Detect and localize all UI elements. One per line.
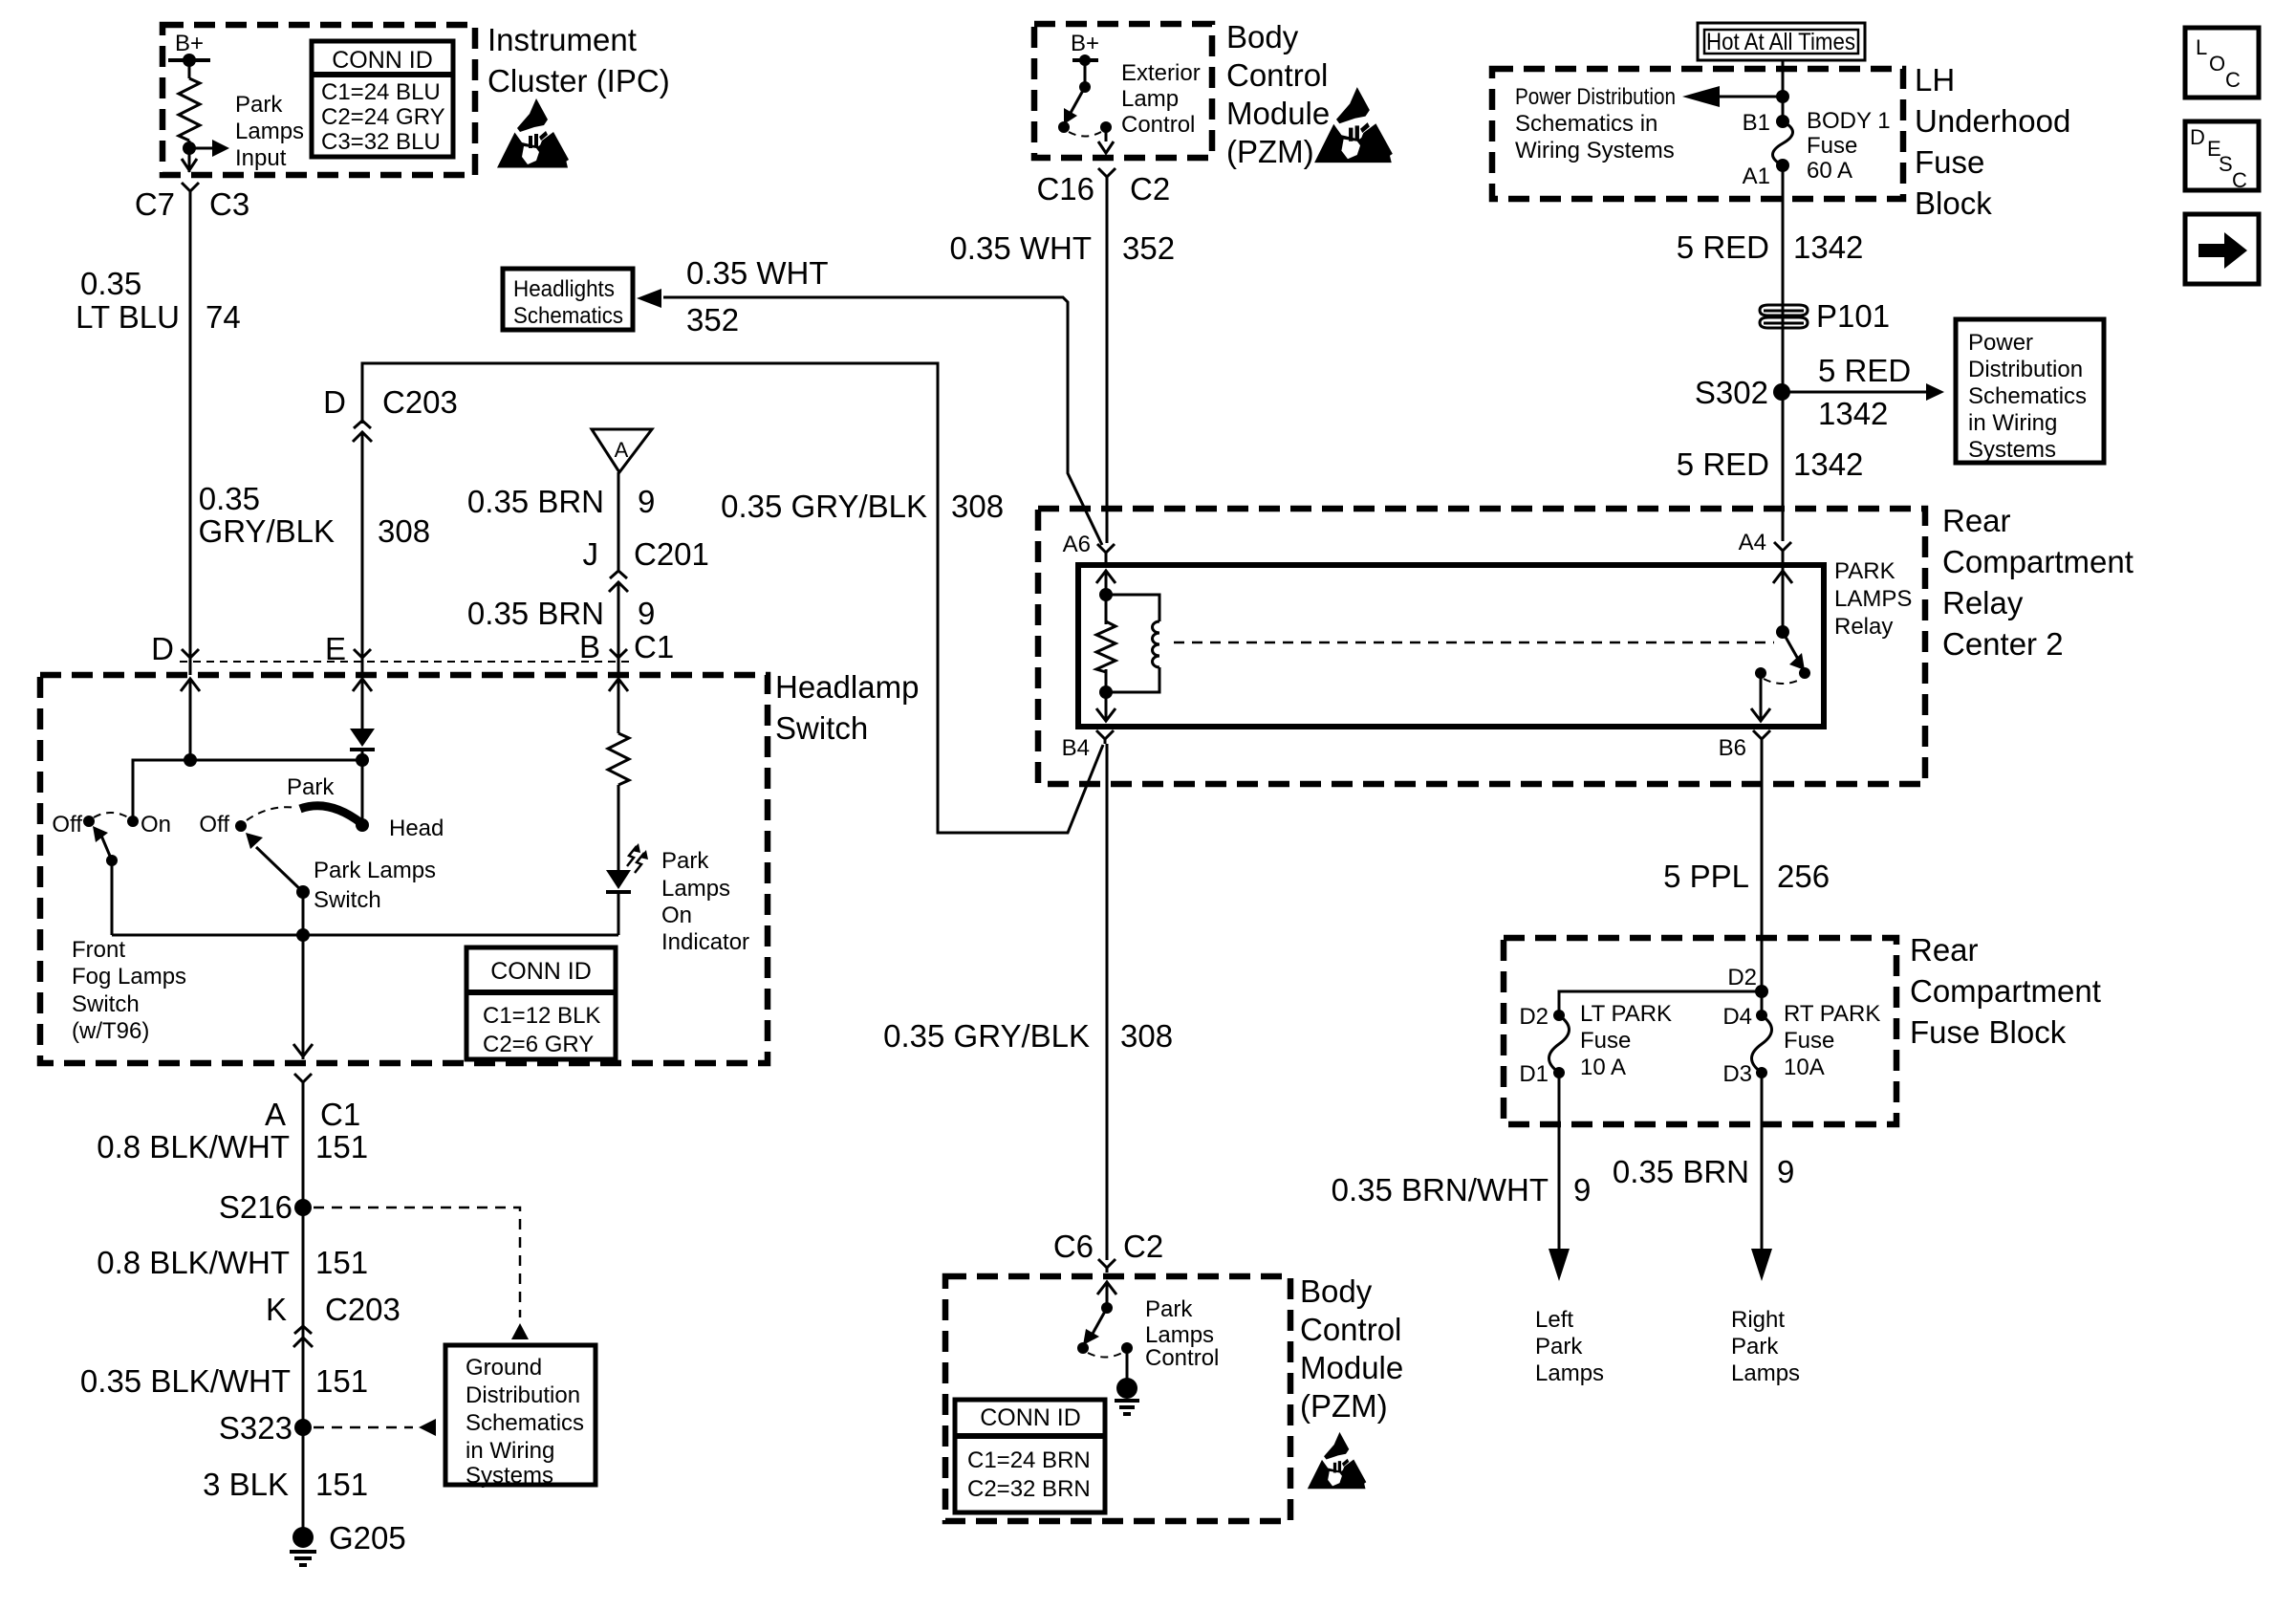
svg-text:Module: Module [1226, 96, 1330, 131]
svg-text:Fuse: Fuse [1807, 133, 1857, 159]
esd symbol (BCM top) [1314, 87, 1393, 163]
svg-text:L: L [2196, 35, 2207, 59]
svg-text:Head: Head [389, 816, 444, 841]
svg-text:Control: Control [1300, 1312, 1401, 1347]
svg-text:C1: C1 [320, 1097, 360, 1132]
relay switch feed wire [1782, 555, 1785, 632]
relay control dashed line [1174, 642, 1774, 644]
wire B pin to resistor [617, 679, 620, 733]
led park lamps on indicator [606, 870, 631, 889]
svg-text:5 RED: 5 RED [1677, 229, 1769, 265]
svg-text:D1: D1 [1519, 1061, 1549, 1087]
wire B6 down to fuse block [1761, 744, 1764, 991]
connector C7/C3 below IPC [182, 183, 199, 196]
arrow to power distribution schematics [1718, 96, 1783, 98]
fuse BODY 1 pin B1 dot [1776, 115, 1789, 128]
switch lever exterior lamp control [1071, 87, 1085, 113]
wire pin C6 to switch dot [1106, 1282, 1109, 1308]
svg-text:B6: B6 [1719, 735, 1746, 761]
svg-text:9: 9 [638, 484, 655, 519]
svg-text:Fog Lamps: Fog Lamps [72, 964, 186, 990]
svg-text:0.35 BRN/WHT: 0.35 BRN/WHT [1332, 1172, 1549, 1207]
dashed reference S216 to ground distribution [314, 1207, 520, 1317]
power distribution schematics box [1956, 319, 2104, 463]
pivot dot park lamps control [1101, 1302, 1113, 1314]
pivot dot (park lamps switch) [296, 885, 310, 899]
connector C203 pin K symbol [293, 1326, 313, 1351]
svg-text:Schematics: Schematics [466, 1410, 584, 1436]
CONN ID table (IPC) [312, 41, 453, 157]
svg-text:C1=24 BLU: C1=24 BLU [321, 79, 441, 105]
svg-text:C201: C201 [634, 536, 709, 572]
svg-text:Indicator: Indicator [661, 929, 749, 955]
junction dot power distribution branch [1776, 90, 1789, 103]
svg-text:Block: Block [1915, 185, 1992, 221]
svg-text:C7: C7 [135, 186, 175, 222]
splice S216 [294, 1199, 312, 1216]
dashed throw arc (fog switch) [94, 813, 128, 817]
svg-text:B+: B+ [1071, 31, 1099, 56]
svg-text:10 A: 10 A [1580, 1055, 1626, 1080]
wire B4 down to BCM C6 [1106, 744, 1109, 1260]
svg-text:Compartment: Compartment [1910, 973, 2101, 1009]
svg-text:G205: G205 [329, 1520, 406, 1556]
svg-text:74: 74 [206, 299, 241, 335]
fuse RT PARK element [1752, 1015, 1772, 1073]
connector C201 pin J symbol [609, 571, 628, 596]
stem B+ to pivot [1084, 60, 1087, 87]
svg-text:352: 352 [686, 302, 739, 337]
svg-text:Lamps: Lamps [661, 876, 730, 902]
svg-text:Left: Left [1535, 1307, 1573, 1333]
arrow icon box [2185, 214, 2259, 284]
wire B+ to resistor [188, 60, 191, 78]
wire A1 down to relay A4 [1782, 165, 1785, 541]
svg-text:Input: Input [235, 145, 287, 171]
svg-text:S: S [2219, 152, 2233, 176]
relay center dashed box [1038, 509, 1925, 784]
fuse LT PARK element [1549, 1015, 1570, 1073]
switch lever (park lamps switch) [256, 847, 303, 892]
switch output bus [112, 934, 618, 937]
arrow into relay coil [1096, 571, 1116, 596]
svg-text:C: C [2232, 168, 2247, 192]
wire D1 to left park lamps [1558, 1073, 1561, 1252]
svg-text:LH: LH [1915, 62, 1955, 98]
rear compartment fuse block dashed box [1504, 938, 1896, 1124]
relay contact dot NO [1799, 667, 1810, 679]
branch to LT PARK fuse [1559, 991, 1762, 1015]
svg-text:352: 352 [1122, 230, 1175, 266]
svg-text:C16: C16 [1036, 171, 1094, 207]
connector pin E symbol [354, 649, 371, 663]
wire A to C201 [617, 472, 620, 570]
svg-text:D: D [151, 631, 174, 666]
wire coil bottom [1105, 669, 1108, 702]
hot at all times box [1698, 23, 1865, 60]
svg-text:A4: A4 [1739, 530, 1766, 555]
svg-text:Relay: Relay [1834, 614, 1893, 640]
arrow into switch pin E [353, 679, 372, 704]
svg-text:D2: D2 [1727, 965, 1757, 990]
arrow down to pin C3 [182, 159, 197, 170]
instrument cluster dashed box [162, 25, 475, 175]
svg-text:(w/T96): (w/T96) [72, 1018, 149, 1044]
junction dot below resistor [183, 141, 196, 155]
wire output down to pin A [302, 935, 305, 1059]
relay switch lever [1783, 632, 1799, 661]
svg-text:308: 308 [1120, 1018, 1173, 1054]
svg-text:LT BLU: LT BLU [76, 299, 180, 335]
svg-text:Park Lamps: Park Lamps [314, 858, 436, 883]
relay contact dot output [1755, 667, 1766, 679]
pivot dot (fog switch) [106, 855, 118, 866]
svg-text:Lamps: Lamps [1731, 1360, 1800, 1386]
svg-text:Distribution: Distribution [1968, 357, 2083, 382]
svg-text:Schematics: Schematics [1968, 383, 2087, 409]
wire fog pivot down [111, 860, 114, 935]
dashed throw arc (park lamps switch) [247, 807, 297, 820]
body control module dashed box (bottom) [945, 1276, 1290, 1521]
LT PARK fuse pin D2 dot [1553, 1010, 1565, 1021]
wire D3 to right park lamps [1761, 1073, 1764, 1252]
LT PARK fuse pin D1 dot [1553, 1067, 1565, 1078]
wire C203-D to relay B4 (308) [362, 363, 1103, 833]
svg-text:1342: 1342 [1793, 229, 1863, 265]
connector A6 [1097, 544, 1115, 557]
splice S302 [1773, 383, 1790, 401]
dashed throw arc (BCM2 switch) [1088, 1353, 1122, 1358]
arrow out of relay coil [1096, 696, 1116, 721]
svg-text:LAMPS: LAMPS [1834, 586, 1912, 612]
relay switch common dot [1776, 625, 1789, 639]
arrow right park lamps input [189, 147, 215, 150]
svg-text:CONN ID: CONN ID [490, 958, 592, 985]
svg-text:GRY/BLK: GRY/BLK [199, 513, 335, 549]
svg-text:Off: Off [52, 812, 82, 838]
svg-text:Off: Off [199, 812, 229, 838]
svg-text:151: 151 [315, 1467, 368, 1502]
connector B4 [1096, 730, 1114, 744]
svg-text:0.35: 0.35 [80, 266, 141, 301]
park lamps relay box [1078, 565, 1824, 727]
wire C203 to headlamp switch E [361, 446, 364, 675]
svg-text:On: On [661, 903, 692, 928]
svg-text:151: 151 [315, 1245, 368, 1280]
svg-text:5 RED: 5 RED [1677, 446, 1769, 482]
svg-text:in Wiring: in Wiring [1968, 410, 2057, 436]
svg-text:(PZM): (PZM) [1300, 1388, 1388, 1424]
svg-text:Hot At All Times: Hot At All Times [1706, 29, 1855, 55]
svg-text:Compartment: Compartment [1942, 544, 2134, 579]
svg-text:Underhood: Underhood [1915, 103, 2070, 139]
svg-text:PARK: PARK [1834, 558, 1895, 584]
headlights schematics box [503, 269, 633, 330]
arrow into BCM pin C6 [1097, 1282, 1116, 1307]
junction dot D2 [1755, 985, 1768, 998]
dashed reference S323 to ground distribution [314, 1426, 413, 1429]
svg-text:A: A [615, 438, 629, 462]
svg-text:C2: C2 [1123, 1229, 1163, 1264]
svg-text:Lamps: Lamps [1145, 1322, 1214, 1348]
arrow into switch pin B [609, 679, 628, 704]
resistor park lamps indicator [608, 733, 629, 785]
svg-text:S302: S302 [1695, 375, 1768, 410]
connector pin B symbol [610, 649, 627, 663]
svg-text:D: D [2190, 125, 2205, 149]
led light rays [627, 846, 637, 866]
svg-text:0.35 WHT: 0.35 WHT [686, 255, 829, 291]
relay coil resistor [1096, 621, 1116, 672]
contact dot off (fog switch) [83, 816, 95, 827]
connector plane dashed line [180, 661, 631, 663]
relay coil inductor branch [1106, 595, 1159, 621]
svg-text:0.35 WHT: 0.35 WHT [949, 230, 1092, 266]
svg-text:B1: B1 [1743, 110, 1770, 136]
svg-text:9: 9 [1777, 1154, 1794, 1189]
svg-text:Distribution: Distribution [466, 1382, 580, 1408]
triangle reference A [592, 429, 652, 472]
wire C16 down to relay A6 [1106, 182, 1109, 543]
contact dot on (fog switch) [127, 816, 139, 827]
wire A/C1 down to S216 [302, 1087, 305, 1528]
dashed contact arc [1764, 679, 1802, 684]
dashed throw arc (BCM switch) [1069, 132, 1101, 137]
svg-text:Schematics: Schematics [513, 303, 623, 329]
junction dot E branch [356, 753, 369, 767]
svg-text:Control: Control [1226, 57, 1328, 93]
svg-text:Headlights: Headlights [513, 276, 615, 302]
svg-text:B4: B4 [1062, 735, 1090, 761]
arrowhead into headlights box [637, 289, 661, 308]
wire resistor to box edge [188, 141, 191, 172]
junction dot coil bottom [1099, 685, 1113, 699]
diode (headlamp switch) [350, 729, 375, 747]
contact dot right (BCM switch) [1100, 121, 1112, 133]
svg-text:A6: A6 [1063, 532, 1091, 557]
pass-through grommet P101 [1760, 305, 1808, 328]
svg-text:J: J [583, 536, 599, 572]
wire relay output down [1760, 673, 1763, 702]
RT PARK fuse pin D4 dot [1756, 1010, 1767, 1021]
svg-text:C6: C6 [1053, 1229, 1094, 1264]
wire hot at all times into fuse block [1782, 60, 1785, 121]
svg-text:0.35 BRN: 0.35 BRN [467, 484, 604, 519]
svg-text:C203: C203 [325, 1292, 401, 1327]
branch bus to on contact [133, 760, 362, 821]
svg-text:D: D [323, 384, 346, 420]
svg-text:Fuse: Fuse [1580, 1028, 1631, 1054]
svg-text:Systems: Systems [466, 1463, 553, 1489]
svg-text:5 RED: 5 RED [1818, 353, 1911, 388]
arrow into relay switch [1773, 571, 1792, 596]
svg-text:P101: P101 [1816, 298, 1890, 334]
svg-text:Switch: Switch [72, 991, 140, 1017]
svg-text:Body: Body [1226, 19, 1299, 54]
svg-text:Rear: Rear [1910, 932, 1979, 968]
splice S323 [294, 1419, 312, 1436]
svg-text:Fuse: Fuse [1784, 1028, 1834, 1054]
svg-text:Right: Right [1731, 1307, 1785, 1333]
relay coil feed wire [1105, 557, 1108, 565]
resistor park lamps input (IPC) [179, 78, 200, 141]
svg-text:(PZM): (PZM) [1226, 134, 1314, 169]
svg-text:C2=32 BRN: C2=32 BRN [967, 1476, 1091, 1502]
contact dot right (BCM2 switch) [1121, 1342, 1133, 1354]
svg-text:Lamp: Lamp [1121, 86, 1179, 112]
svg-text:Cluster (IPC): Cluster (IPC) [487, 63, 670, 98]
svg-text:Power: Power [1968, 330, 2033, 356]
contact dot left (BCM2 switch) [1077, 1342, 1089, 1354]
B+ terminal bar (BCM) [1072, 58, 1098, 62]
connector C203 pin D symbol [353, 421, 372, 446]
svg-text:Switch: Switch [314, 887, 381, 913]
contact dot head [356, 818, 369, 832]
junction dot D branch [184, 753, 197, 767]
svg-text:D3: D3 [1722, 1061, 1752, 1087]
svg-text:Park: Park [235, 92, 283, 118]
svg-text:0.35: 0.35 [199, 481, 260, 516]
svg-text:C2=6 GRY: C2=6 GRY [483, 1032, 594, 1057]
wire led to bus [617, 894, 620, 935]
switch lever (fog switch) [101, 836, 112, 860]
thick park-head arc [300, 806, 361, 823]
body control module dashed box (top) [1034, 24, 1212, 158]
svg-text:Relay: Relay [1942, 585, 2024, 620]
connector pin D symbol [182, 649, 199, 663]
svg-text:C1=12 BLK: C1=12 BLK [483, 1003, 600, 1029]
svg-text:C3=32 BLU: C3=32 BLU [321, 129, 441, 155]
svg-text:0.8 BLK/WHT: 0.8 BLK/WHT [97, 1129, 290, 1164]
ground G205 [292, 1527, 314, 1548]
svg-text:S216: S216 [219, 1189, 292, 1225]
svg-text:C3: C3 [209, 186, 249, 222]
svg-text:O: O [2209, 52, 2225, 76]
svg-text:Lamps: Lamps [1535, 1360, 1604, 1386]
svg-text:Fuse Block: Fuse Block [1910, 1014, 2067, 1050]
ground distribution schematics box [445, 1345, 596, 1485]
arrow down to pin C16 [1098, 141, 1114, 153]
headlamp switch dashed box [40, 675, 768, 1063]
svg-text:A: A [265, 1097, 286, 1132]
svg-text:Control: Control [1121, 112, 1195, 138]
svg-text:CONN ID: CONN ID [332, 47, 433, 74]
svg-text:Switch: Switch [775, 710, 868, 746]
arrow out of switch pin A [293, 1044, 313, 1056]
arrow S302 to power distribution schematics [1782, 391, 1929, 394]
svg-text:Front: Front [72, 937, 125, 963]
svg-text:Ground: Ground [466, 1355, 542, 1381]
contact dot off (park lamps switch) [235, 820, 247, 832]
svg-text:Lamps: Lamps [235, 119, 304, 144]
svg-text:60 A: 60 A [1807, 158, 1852, 184]
loc icon box [2185, 28, 2259, 98]
svg-text:Park: Park [661, 848, 709, 874]
connector A/C1 below switch [294, 1074, 312, 1087]
junction dot B+ (IPC) [183, 54, 196, 67]
desc icon box [2185, 121, 2259, 190]
wire C201 to headlamp switch B [617, 596, 620, 675]
svg-text:Park: Park [1731, 1334, 1779, 1360]
svg-text:B: B [579, 629, 600, 664]
svg-text:Rear: Rear [1942, 503, 2011, 538]
svg-text:Exterior: Exterior [1121, 60, 1201, 86]
svg-text:0.8 BLK/WHT: 0.8 BLK/WHT [97, 1245, 290, 1280]
svg-text:Center 2: Center 2 [1942, 626, 2064, 662]
connector C16/C2 [1098, 168, 1116, 182]
svg-text:Module: Module [1300, 1350, 1403, 1385]
internal ground (BCM2) [1116, 1378, 1137, 1399]
svg-text:308: 308 [378, 513, 430, 549]
connector B6 [1753, 730, 1770, 744]
svg-text:10A: 10A [1784, 1055, 1825, 1080]
svg-text:C: C [2225, 68, 2241, 92]
esd symbol (BCM bottom) [1308, 1432, 1367, 1489]
svg-text:C2: C2 [1130, 171, 1170, 207]
svg-text:0.35 GRY/BLK: 0.35 GRY/BLK [883, 1018, 1090, 1054]
wire diode to head contact [361, 751, 364, 823]
svg-text:9: 9 [638, 596, 655, 631]
svg-text:B+: B+ [175, 31, 204, 56]
RT PARK fuse pin D3 dot [1756, 1067, 1767, 1078]
fuse BODY 1 element [1773, 121, 1793, 165]
arrow out of relay switch [1751, 696, 1770, 721]
svg-text:9: 9 [1573, 1172, 1591, 1207]
svg-text:151: 151 [315, 1363, 368, 1399]
svg-text:Fuse: Fuse [1915, 144, 1984, 180]
svg-text:256: 256 [1777, 859, 1830, 894]
svg-text:Systems: Systems [1968, 437, 2056, 463]
svg-text:C1=24 BRN: C1=24 BRN [967, 1447, 1091, 1473]
svg-text:C2=24 GRY: C2=24 GRY [321, 104, 445, 130]
svg-text:C203: C203 [382, 384, 458, 420]
junction dot coil top [1099, 588, 1113, 601]
connector C6/C2 [1098, 1259, 1116, 1273]
svg-text:5 PPL: 5 PPL [1663, 859, 1749, 894]
svg-text:Power Distribution: Power Distribution [1515, 84, 1676, 110]
svg-text:Wiring Systems: Wiring Systems [1515, 138, 1675, 163]
wire contact to internal ground [1126, 1348, 1129, 1379]
svg-text:LT PARK: LT PARK [1580, 1001, 1672, 1027]
svg-text:Park: Park [1535, 1334, 1583, 1360]
svg-text:RT PARK: RT PARK [1784, 1001, 1880, 1027]
pivot dot exterior lamp control [1079, 81, 1091, 93]
svg-text:Control: Control [1145, 1345, 1219, 1371]
svg-text:D4: D4 [1722, 1004, 1752, 1030]
esd symbol (IPC) [497, 98, 569, 168]
svg-text:151: 151 [315, 1129, 368, 1164]
svg-text:E: E [325, 631, 346, 666]
svg-text:Park: Park [287, 774, 335, 800]
svg-text:Park: Park [1145, 1296, 1193, 1322]
svg-text:308: 308 [951, 489, 1004, 524]
wire resistor to led [617, 785, 620, 870]
svg-text:3 BLK: 3 BLK [203, 1467, 289, 1502]
B+ terminal bar (IPC) [168, 58, 210, 62]
svg-text:0.35 BRN: 0.35 BRN [1613, 1154, 1749, 1189]
wire D2 to RT PARK fuse [1761, 991, 1764, 1015]
wire D pin down [189, 679, 192, 760]
wire E pin down to diode [361, 679, 364, 729]
svg-text:A1: A1 [1743, 163, 1770, 189]
svg-text:CONN ID: CONN ID [980, 1404, 1081, 1431]
svg-text:Body: Body [1300, 1273, 1373, 1309]
svg-text:1342: 1342 [1793, 446, 1863, 482]
arrow into switch pin D [181, 679, 200, 704]
fuse BODY 1 pin A1 dot [1776, 159, 1789, 172]
svg-text:Schematics in: Schematics in [1515, 111, 1657, 137]
svg-text:BODY 1: BODY 1 [1807, 108, 1891, 134]
